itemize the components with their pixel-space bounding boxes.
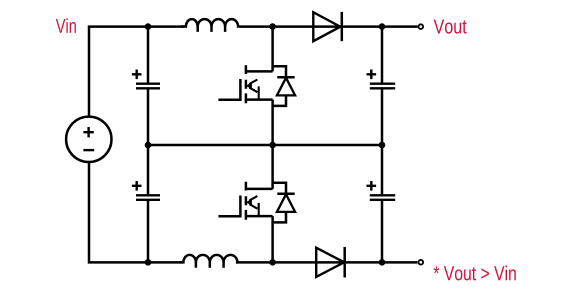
Q1 body diode cathode bar (277, 76, 294, 79)
node: bottom rail / C4 junction (379, 259, 386, 266)
Q1 source contact (246, 98, 273, 101)
wire: top rail right segment from L1 to Vout terminal (239, 25, 418, 28)
diode: Q2 body diode (273, 183, 296, 223)
terminal: Vout open circle (419, 24, 424, 29)
node: bottom rail / Q2 source junction (269, 259, 276, 266)
Q2 source contact (246, 215, 273, 218)
wire: top-right capacitor C3 branch lower (381, 89, 384, 145)
diode: Q1 body diode (273, 66, 296, 106)
capacitor C3 plates (top-right) (370, 84, 395, 89)
label * Vout > Vin (434, 266, 516, 281)
Q2 body diode cathode connection (273, 183, 286, 194)
Q2 gate lead (218, 215, 240, 218)
Q1 gate bar (239, 79, 242, 101)
Q1 body diode triangle (277, 78, 295, 96)
wire: top rail left segment with corner down to source top (89, 27, 185, 117)
capacitor C2 plates (bottom-left) (136, 195, 160, 200)
capacitor C2 plus polarity mark (132, 181, 142, 191)
capacitor C3 plus polarity mark (367, 70, 377, 80)
Q1 body diode cathode connection (273, 66, 286, 77)
Q2 drain vertical wire (271, 145, 274, 189)
node: mid rail / C3-C4 junction (379, 142, 386, 149)
transistor Q1 (top MOSFET) (218, 27, 272, 145)
node: top rail / Q1 drain junction (269, 23, 276, 30)
Q2 body diode cathode bar (277, 193, 294, 196)
Q1 drain vertical wire (271, 27, 274, 72)
voltage source V1 circle (66, 117, 111, 162)
Q1 channel segments (245, 65, 248, 103)
node: top rail / C1 junction (145, 23, 152, 30)
Q2 body diode triangle (277, 194, 295, 212)
voltage source V1 minus sign (83, 149, 94, 151)
inductor L2 (bottom) (180, 255, 239, 268)
D2 cathode bar (343, 247, 346, 278)
wire: middle rail (148, 144, 382, 147)
Q2 gate bar (239, 196, 242, 218)
wire: left rail from source bottom to bottom-left corner to inductor L2 (89, 162, 182, 262)
diode D2 (bottom output diode) (316, 247, 345, 278)
wire: bottom capacitor C2 branch upper (147, 145, 150, 194)
inductor L1 (top) (181, 19, 239, 32)
Q1 gate lead (218, 99, 240, 102)
capacitor C4 plus polarity mark (367, 181, 377, 191)
wire: top-right capacitor C3 branch upper (381, 27, 384, 83)
terminal: bottom output open circle (419, 260, 424, 265)
Q2 body diode anode connection (273, 212, 286, 223)
transistor Q2 (bottom MOSFET) (218, 145, 272, 262)
wire: top capacitor C1 branch lower (147, 89, 150, 145)
capacitor C4 plates (bottom-right) (370, 195, 395, 200)
voltage source V1 plus sign (83, 127, 93, 137)
wire: bottom rail right segment from L2 to output terminal (236, 261, 418, 264)
wire: bottom-right capacitor C4 branch lower (381, 201, 384, 262)
D1 cathode bar (341, 12, 344, 41)
capacitor C1 plates (top-left) (136, 84, 160, 89)
Q1 drain contact (246, 70, 273, 73)
label Vout (434, 20, 467, 34)
Q1 source vertical wire (271, 100, 274, 145)
label Vin (56, 18, 76, 33)
Q2 drain contact (246, 188, 273, 191)
Q1 body arrow (249, 80, 258, 100)
wire: bottom capacitor C2 branch lower (147, 201, 150, 262)
diode D1 (top output diode) (313, 12, 342, 41)
Q2 body arrow (249, 196, 258, 216)
capacitor C1 plus polarity mark (132, 70, 142, 80)
Q2 source vertical wire (271, 216, 274, 262)
wire: bottom-right capacitor C4 branch upper (381, 145, 384, 194)
Q1 body diode anode connection (273, 95, 286, 106)
node: top rail / C3 junction (379, 23, 386, 30)
node: bottom rail / C2 junction (145, 259, 152, 266)
wire: top capacitor C1 branch upper (147, 27, 150, 83)
Q2 channel segments (245, 182, 248, 220)
node: mid rail / C1-C2 junction (145, 142, 152, 149)
node: mid rail / Q1-Q2 junction (269, 142, 276, 149)
